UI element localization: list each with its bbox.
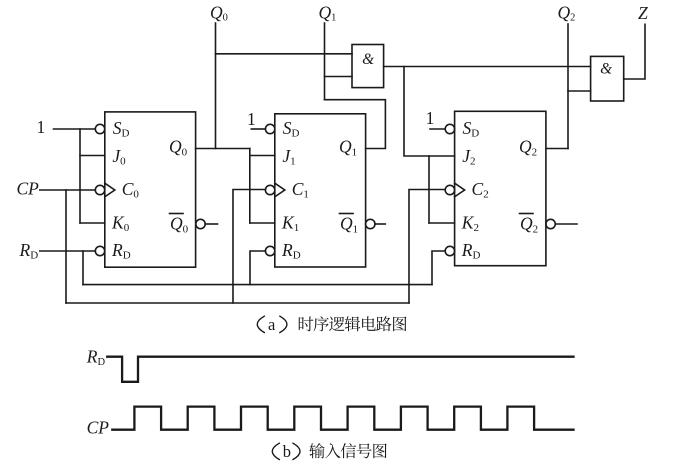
- wire J2-K2 tie vertical: [428, 156, 430, 223]
- svg-text:Q2: Q2: [520, 214, 538, 236]
- FF2 clock bubble: [265, 185, 274, 194]
- wire CP drop vertical: [65, 190, 67, 303]
- wire U1 output branch to FF3 J2: [404, 67, 455, 157]
- flip-flop FF1 box: [105, 112, 196, 267]
- svg-text:SD: SD: [463, 118, 480, 140]
- svg-text:b: b: [283, 442, 291, 461]
- wire U1 output to U2 input A: [384, 66, 591, 68]
- wire CP bus horizontal: [66, 302, 409, 304]
- svg-text:K0: K0: [111, 213, 130, 235]
- wire FF2 J1 input: [250, 155, 275, 157]
- wire 1 to FF3 SD: [430, 128, 445, 130]
- svg-text:1: 1: [37, 117, 46, 137]
- wire RD bus horizontal: [83, 284, 432, 286]
- svg-text:&: &: [362, 51, 374, 68]
- svg-text:K1: K1: [281, 213, 299, 235]
- wire FF1 Q0bar stub: [205, 223, 217, 225]
- flip-flop FF2 box: [275, 114, 366, 267]
- caption (b) 输入信号图: [272, 442, 387, 461]
- svg-text:Q1: Q1: [339, 137, 357, 159]
- and-gate U1 box: [352, 45, 384, 88]
- svg-text:J2: J2: [462, 146, 475, 168]
- svg-text:a: a: [268, 315, 276, 334]
- svg-text:Q2: Q2: [519, 137, 537, 159]
- and-gate U2 box: [591, 56, 624, 101]
- wire 1 to FF1 SD: [54, 128, 96, 130]
- wire RD riser to FF2 RD: [250, 251, 265, 285]
- wire CP to FF1 C0: [40, 189, 96, 191]
- FF1 SD inversion bubble: [95, 124, 104, 133]
- svg-text:&: &: [600, 61, 612, 78]
- FF3 clock bubble: [445, 185, 454, 194]
- svg-text:SD: SD: [113, 118, 130, 140]
- FF2 Q1bar overbar: [340, 213, 354, 215]
- svg-text:K2: K2: [461, 213, 479, 235]
- FF3 SD inversion bubble: [445, 124, 454, 133]
- svg-text:J1: J1: [282, 146, 295, 168]
- svg-text:RD: RD: [111, 240, 131, 262]
- svg-text:1: 1: [426, 108, 435, 128]
- svg-text:Q1: Q1: [340, 214, 358, 236]
- wire Q1 rail elbow to FF2 Q1 output: [325, 100, 386, 149]
- wire FF1 K0 input: [80, 222, 105, 224]
- wire FF2 K1 input: [250, 222, 275, 224]
- FF2 clock edge triangle: [275, 183, 285, 197]
- wire 1 to FF2 SD: [251, 128, 265, 130]
- FF3 clock edge triangle: [455, 183, 465, 197]
- FF3 RD inversion bubble: [445, 246, 454, 255]
- wire Q1 to AND1 input B: [325, 76, 353, 78]
- flip-flop FF3 box: [455, 111, 546, 265]
- svg-text:RD: RD: [19, 240, 39, 262]
- wire CP riser to FF3 C2: [409, 190, 445, 304]
- wire CP riser to FF2 C1: [233, 190, 265, 304]
- svg-text:Z: Z: [638, 3, 648, 23]
- svg-text:C0: C0: [122, 179, 140, 201]
- waveform CP: [112, 407, 573, 430]
- FF1 clock edge triangle: [105, 183, 115, 197]
- svg-text:SD: SD: [283, 118, 300, 140]
- wire Q0 tie to J1 K1 vertical: [249, 149, 251, 224]
- svg-text:RD: RD: [461, 240, 481, 262]
- svg-text:RD: RD: [86, 346, 106, 368]
- svg-text:Q2: Q2: [558, 2, 576, 23]
- wire RD to FF1 RD: [40, 250, 96, 252]
- wire FF1 J0 input: [80, 155, 105, 157]
- FF3 Q2bar inversion bubble: [546, 219, 555, 228]
- wire Q2 to AND2 input B: [568, 90, 591, 92]
- wire RD drop vertical: [82, 251, 84, 285]
- caption (a) 时序逻辑电路图: [257, 315, 406, 334]
- svg-text:C2: C2: [472, 179, 489, 201]
- wire FF3 Q2 output: [546, 148, 568, 150]
- svg-text:J0: J0: [112, 146, 126, 168]
- wire RD riser to FF3 RD: [432, 251, 445, 285]
- svg-text:RD: RD: [281, 240, 301, 262]
- svg-text:CP: CP: [17, 179, 40, 199]
- FF3 Q2bar overbar: [520, 213, 534, 215]
- wire Q2 rail vertical: [567, 24, 569, 149]
- wire Q1 rail vertical: [324, 23, 326, 100]
- wire U2 output to Z: [624, 24, 645, 79]
- wire FF1 Q0 output: [196, 148, 250, 150]
- svg-text:1: 1: [247, 109, 256, 129]
- wire FF3 K2 input: [429, 222, 455, 224]
- FF2 Q1bar inversion bubble: [366, 219, 375, 228]
- wire 1 tie SD-J0-K0 vertical: [79, 129, 81, 223]
- FF1 RD inversion bubble: [95, 246, 104, 255]
- waveform RD: [107, 357, 573, 382]
- svg-text:CP: CP: [87, 418, 110, 438]
- svg-text:Q0: Q0: [170, 214, 189, 236]
- wire FF2 Q1bar stub: [375, 223, 385, 225]
- svg-text:C1: C1: [292, 179, 309, 201]
- FF1 Q0bar overbar: [170, 213, 184, 215]
- FF2 RD inversion bubble: [265, 246, 274, 255]
- FF1 clock bubble: [95, 185, 104, 194]
- svg-text:Q0: Q0: [169, 137, 188, 159]
- svg-text:Q1: Q1: [319, 2, 337, 23]
- FF1 Q0bar inversion bubble: [196, 219, 205, 228]
- wire Q0 to AND1 input A: [216, 53, 353, 55]
- svg-text:Q0: Q0: [210, 2, 228, 23]
- wire Q0 rail vertical: [215, 23, 217, 149]
- FF2 SD inversion bubble: [265, 124, 274, 133]
- wire FF3 Q2bar stub: [555, 223, 577, 225]
